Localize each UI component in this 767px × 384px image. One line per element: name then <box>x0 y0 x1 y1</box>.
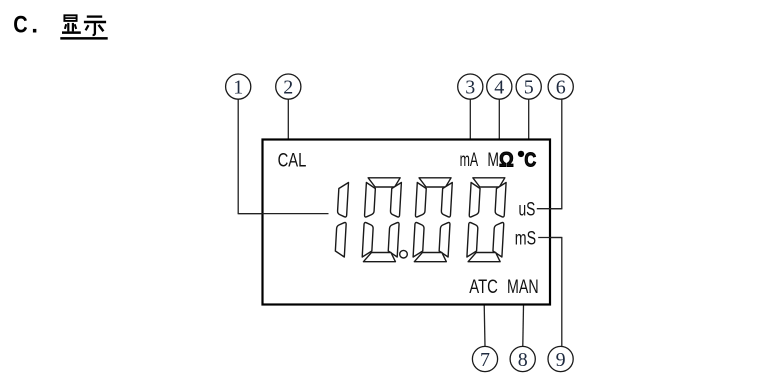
svg-text:5: 5 <box>524 76 534 98</box>
svg-text:MAN: MAN <box>507 277 539 298</box>
svg-text:1: 1 <box>233 76 243 98</box>
svg-text:M: M <box>487 150 499 171</box>
svg-text:9: 9 <box>556 349 566 371</box>
svg-text:uS: uS <box>519 200 536 221</box>
svg-text:ATC: ATC <box>469 277 498 298</box>
svg-text:CAL: CAL <box>278 150 307 171</box>
svg-text:3: 3 <box>465 76 475 98</box>
svg-text:C: C <box>13 12 28 39</box>
svg-text:mA: mA <box>460 150 479 171</box>
svg-text:mS: mS <box>515 228 536 249</box>
svg-text:.: . <box>31 12 38 39</box>
svg-text:Ω: Ω <box>499 147 514 171</box>
svg-text:4: 4 <box>494 76 504 98</box>
svg-text:2: 2 <box>283 76 293 98</box>
svg-text:7: 7 <box>480 349 490 371</box>
svg-text:C: C <box>524 148 536 171</box>
svg-text:6: 6 <box>556 76 566 98</box>
svg-text:8: 8 <box>518 349 528 371</box>
